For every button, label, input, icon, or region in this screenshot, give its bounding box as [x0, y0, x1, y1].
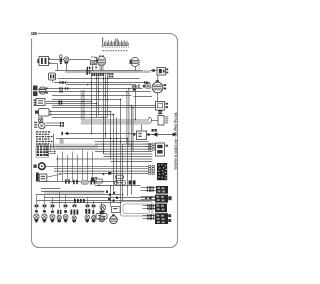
- inline connector: [150, 186, 151, 188]
- junction: [110, 111, 112, 113]
- junction: [87, 84, 89, 86]
- wire: [143, 205, 156, 207]
- inline connector: [85, 209, 87, 214]
- handlebar switch contact table: [102, 37, 129, 45]
- junction cluster: [106, 191, 118, 202]
- connector block 1: [156, 186, 168, 194]
- junction: [113, 114, 115, 116]
- wire: [110, 186, 112, 207]
- wire: [52, 80, 54, 83]
- junction: [105, 95, 107, 97]
- wire: [58, 78, 140, 80]
- fuel sender float: [148, 117, 151, 123]
- junction: [103, 78, 105, 80]
- junction: [122, 194, 124, 196]
- wire harness band lower: [50, 144, 98, 149]
- starter relay: [36, 99, 45, 106]
- wire: [107, 74, 109, 118]
- connector row: [74, 199, 76, 203]
- junction: [82, 111, 84, 113]
- clutch diode: [91, 178, 95, 182]
- starter motor: [39, 109, 50, 117]
- wire: [69, 59, 91, 61]
- wire: [46, 122, 60, 124]
- neutral switch leads: [95, 57, 96, 59]
- inline connector: [150, 189, 151, 191]
- junction: [135, 119, 137, 121]
- wire: [51, 111, 111, 113]
- inline connector: [147, 214, 148, 216]
- wire: [51, 114, 114, 116]
- inline connector: [151, 214, 152, 216]
- wire: [41, 191, 105, 193]
- wire: [44, 181, 117, 183]
- pilot lamp: [72, 216, 76, 220]
- wire: [139, 60, 141, 71]
- meter lamp: [64, 210, 67, 213]
- neutral indicator lamp: [100, 205, 106, 211]
- wire: [53, 134, 55, 149]
- wire: [143, 146, 149, 148]
- wire: [46, 91, 151, 93]
- wire: [104, 156, 153, 158]
- switch table pin numbers: [102, 47, 129, 48]
- inline connector: [151, 204, 152, 206]
- wire: [104, 153, 153, 155]
- wiring key text block: [36, 131, 53, 144]
- harness pill connector: [60, 139, 63, 149]
- junction: [103, 143, 105, 145]
- wire: [56, 148, 152, 150]
- inline connector: [65, 87, 66, 89]
- wire: [65, 71, 151, 73]
- starter cut-off relay: [137, 131, 147, 140]
- wire: [95, 151, 152, 153]
- turn signal indicator bulb: [132, 84, 136, 88]
- inline connector: [147, 189, 148, 191]
- junction: [116, 138, 118, 140]
- wire: [128, 89, 130, 147]
- wire: [101, 66, 103, 71]
- junction: [82, 95, 84, 97]
- inline connector: [147, 207, 148, 209]
- inline connector: [147, 204, 148, 206]
- starter motor unit: [96, 214, 107, 220]
- flasher relay: [115, 181, 126, 186]
- junction: [107, 78, 109, 80]
- harness inline connector: [86, 69, 88, 75]
- wire: [52, 107, 156, 109]
- inline connector: [59, 102, 60, 104]
- junction: [103, 117, 105, 119]
- wire: [52, 99, 121, 101]
- wire: [55, 70, 142, 72]
- gauge chain wires: [157, 75, 159, 80]
- horn button stems: [99, 66, 101, 71]
- wire: [105, 74, 107, 139]
- junction: [120, 141, 122, 143]
- connector row lower: [65, 179, 67, 183]
- junction: [105, 133, 107, 135]
- junction: [113, 141, 115, 143]
- wire: [91, 74, 93, 134]
- wire: [64, 173, 148, 175]
- wire: [52, 105, 156, 107]
- wire: [41, 188, 61, 190]
- dimmer switch: [131, 57, 139, 66]
- wire: [131, 144, 133, 194]
- junction: [107, 99, 109, 101]
- wire: [95, 143, 152, 145]
- wire loop inner: [123, 204, 150, 214]
- wire: [56, 138, 128, 140]
- wire: [132, 108, 134, 152]
- fuse main: [59, 55, 62, 58]
- wire: [46, 88, 143, 90]
- brake switch connector pins: [148, 143, 151, 145]
- junction: [91, 133, 93, 135]
- horn button: [97, 56, 106, 66]
- clutch switch arrow: [62, 132, 64, 135]
- wire: [44, 197, 155, 199]
- wire: [142, 70, 151, 72]
- junction: [91, 101, 93, 103]
- battery: [39, 122, 46, 129]
- wire: [91, 73, 109, 75]
- wire: [46, 125, 60, 127]
- inline connector: [96, 73, 97, 75]
- arrow to oil sensor: [150, 69, 154, 73]
- battery feed connectors: [60, 122, 62, 124]
- main switch: [39, 163, 46, 170]
- diagram frame border: [32, 34, 178, 248]
- alternator: [39, 57, 49, 66]
- wire: [134, 96, 153, 98]
- wire harness band horizontal: [81, 120, 149, 125]
- junction: [110, 185, 112, 187]
- wire: [141, 196, 156, 198]
- diode block: [129, 180, 132, 184]
- wire: [95, 185, 141, 187]
- CDI connector pins: [148, 165, 151, 167]
- wire fuse feeds: [49, 144, 57, 154]
- rear brake switch: [156, 143, 165, 156]
- wire: [143, 208, 156, 210]
- junction: [98, 91, 100, 93]
- inline connector: [59, 87, 60, 89]
- junction: [96, 78, 98, 80]
- connector arrow: [145, 197, 147, 199]
- turn signal lamp front right: [43, 210, 46, 212]
- sensor unit: [146, 84, 150, 88]
- inline connector: [57, 210, 59, 214]
- wire drops to lamps: [58, 149, 93, 182]
- wire: [54, 82, 150, 84]
- inline connector: [91, 73, 92, 75]
- inline connector: [147, 186, 148, 188]
- wire: [46, 165, 149, 167]
- wire: [113, 115, 115, 191]
- inline connector: [144, 81, 145, 83]
- fuel sender: [158, 112, 162, 114]
- main lead arrow: [147, 134, 177, 136]
- inline connector: [151, 217, 152, 219]
- fuel sender label: [165, 116, 168, 123]
- sidestand switch: [96, 179, 102, 183]
- wire: [116, 118, 118, 186]
- turn signal lamp rear left: [85, 215, 90, 220]
- wire: [91, 75, 104, 77]
- lamp base terminals: [35, 221, 94, 223]
- lamp connectors: [35, 205, 96, 208]
- wire: [127, 139, 129, 197]
- junction: [59, 173, 61, 175]
- wire: [141, 199, 156, 201]
- wire: [46, 101, 91, 103]
- fuse 30A: [38, 117, 40, 118]
- inline connector: [87, 67, 88, 69]
- wire: [51, 59, 60, 61]
- wire: [143, 218, 156, 220]
- switch table labels: [102, 49, 127, 52]
- wire: [96, 74, 98, 118]
- wire: [56, 146, 152, 148]
- speedometer: [156, 102, 165, 111]
- junction: [110, 138, 112, 140]
- wire: [120, 100, 122, 202]
- wire: [110, 112, 112, 160]
- wire: [130, 106, 132, 150]
- wire harness band vertical: [81, 90, 85, 120]
- lamp stems: [37, 192, 102, 212]
- wire: [50, 202, 121, 204]
- wire: [66, 133, 137, 135]
- connector block 3: [155, 204, 167, 213]
- inline connector: [59, 81, 60, 83]
- oil level sensor: [157, 68, 166, 76]
- neutral switch: [91, 57, 93, 58]
- warning light bulb: [64, 57, 69, 62]
- wire: [103, 144, 105, 154]
- junction: [126, 91, 128, 93]
- CDI unit connector: [157, 163, 167, 180]
- inline connector: [92, 210, 94, 214]
- regulator/rectifier: [49, 73, 56, 80]
- turn signal lamp rear right: [92, 216, 96, 220]
- wire harness band bottom: [44, 190, 104, 194]
- wire: [52, 95, 131, 97]
- junction: [116, 181, 118, 183]
- junction: [82, 101, 84, 103]
- tachometer: [152, 82, 163, 93]
- wire: [135, 85, 137, 120]
- connector block 4: [155, 213, 168, 224]
- wire loop rectangle: [121, 202, 153, 217]
- inline connector: [59, 100, 60, 102]
- junction: [131, 143, 133, 145]
- junction: [128, 88, 130, 90]
- ignition pickup: [112, 207, 121, 213]
- wire: [122, 144, 124, 201]
- horn button leads: [99, 55, 101, 57]
- wire: [66, 63, 68, 71]
- inline connector: [71, 210, 73, 215]
- junction: [120, 99, 122, 101]
- wire: [141, 190, 157, 192]
- wire: [52, 117, 108, 119]
- connector pill: [81, 180, 88, 184]
- wire: [103, 74, 105, 155]
- junction: [105, 82, 107, 84]
- junction: [120, 202, 122, 204]
- wire: [98, 74, 100, 116]
- rear brake lamp: [100, 211, 104, 214]
- wire: [143, 143, 149, 145]
- inline connector: [63, 81, 64, 83]
- wire: [54, 168, 148, 170]
- junction: [132, 107, 134, 109]
- inline connector: [100, 73, 101, 75]
- wire: [63, 59, 65, 61]
- wire: [141, 125, 143, 132]
- svg-text:Wiring diagram - All XJ600 N m: Wiring diagram - All XJ600 N models: [173, 113, 177, 170]
- headlamp: [51, 211, 54, 213]
- junction: [91, 82, 93, 84]
- wire: [135, 67, 137, 71]
- wire: [46, 103, 97, 105]
- wire: [54, 170, 148, 172]
- connector block 2: [155, 195, 168, 203]
- fuse box: [36, 145, 49, 157]
- turn signal lamp front left: [35, 210, 38, 212]
- fuse pair: [152, 129, 154, 132]
- wire: [36, 194, 120, 196]
- wire: [95, 141, 149, 143]
- svg-text:150: 150: [31, 31, 38, 36]
- wire: [66, 84, 132, 86]
- diagonal wire: [47, 174, 64, 178]
- wire: [51, 63, 58, 65]
- wire: [143, 215, 156, 217]
- wire: [57, 64, 59, 71]
- wire: [92, 65, 94, 71]
- wire: [141, 187, 157, 189]
- inline connector: [147, 217, 148, 219]
- inline connector: [151, 207, 152, 209]
- wire: [116, 176, 118, 182]
- pickup coil: [110, 216, 118, 224]
- junction: [131, 105, 133, 107]
- resistor unit: [116, 175, 124, 179]
- horn: [36, 173, 39, 182]
- ignition switch assembly: [33, 86, 38, 91]
- wire: [126, 92, 128, 145]
- connector cluster: [109, 73, 110, 75]
- junction: [96, 103, 98, 105]
- junction: [127, 138, 129, 140]
- inline connector: [59, 90, 60, 92]
- wire: [56, 158, 152, 160]
- wire: [36, 200, 155, 202]
- wire: [111, 161, 153, 163]
- tail lamp: [57, 215, 61, 219]
